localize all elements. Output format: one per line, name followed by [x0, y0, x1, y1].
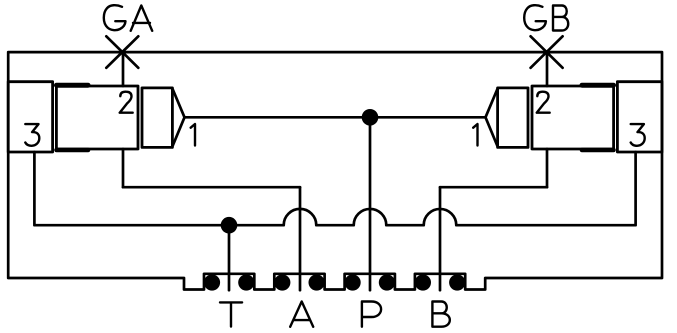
label 3 valve V1 [25, 124, 39, 146]
valve V2 body box 3 [617, 82, 662, 152]
valve V1 body box 3 [8, 82, 52, 152]
junction dot T branch [221, 217, 238, 234]
port seal disc P-right [379, 274, 395, 290]
valve V1 seal bar bottom [57, 148, 89, 153]
valve V2 body box 2 [532, 86, 614, 149]
label GA [104, 5, 152, 31]
port seal disc A-right [309, 274, 325, 290]
port seal disc T-left [204, 274, 220, 290]
valve V2 seal bar bottom [582, 148, 614, 153]
label 1 valve V2 [473, 124, 477, 146]
wire GA pilot upper [122, 52, 125, 86]
valve V2 poppet cone [486, 89, 498, 146]
valve V1 poppet cone [173, 89, 185, 146]
port GA plug symbol X [106, 36, 138, 68]
wire tank branch with crossovers [34, 152, 635, 225]
label 2 valve V1 [120, 92, 133, 113]
label port P [362, 302, 381, 327]
wire port P line [369, 117, 372, 290]
valve V1 seal bar top [57, 83, 89, 88]
junction dot P main line [362, 109, 379, 126]
wire GB pilot upper [546, 52, 549, 86]
label port A [290, 302, 313, 327]
manifold block outline [8, 52, 662, 289]
label 1 valve V1 [191, 124, 195, 146]
wire GB to port B [440, 186, 547, 189]
label 3 valve V2 [631, 124, 645, 146]
wire GA pilot lower [122, 149, 125, 187]
valve V2 nose box [498, 88, 528, 147]
wire GB pilot lower [546, 149, 549, 187]
port seal disc T-right [238, 274, 254, 290]
valve V1 body box 2 [56, 86, 138, 149]
valve V2 seal bar top [582, 83, 614, 88]
wire port B line [439, 187, 442, 290]
port GB plug symbol X [531, 36, 563, 68]
wire main line node 1 [185, 116, 486, 119]
port seal disc A-left [274, 274, 290, 290]
port seal disc B-left [415, 274, 431, 290]
wire GA to port A [123, 186, 300, 189]
valve V1 nose box [142, 88, 172, 147]
port seal disc P-left [345, 274, 361, 290]
wire port T line [228, 225, 231, 290]
label port T [220, 302, 242, 326]
label 2 valve V2 [537, 92, 550, 113]
label port B [432, 302, 449, 327]
port seal disc B-right [449, 274, 465, 290]
label GB [524, 5, 568, 30]
wire port A line [299, 187, 302, 290]
